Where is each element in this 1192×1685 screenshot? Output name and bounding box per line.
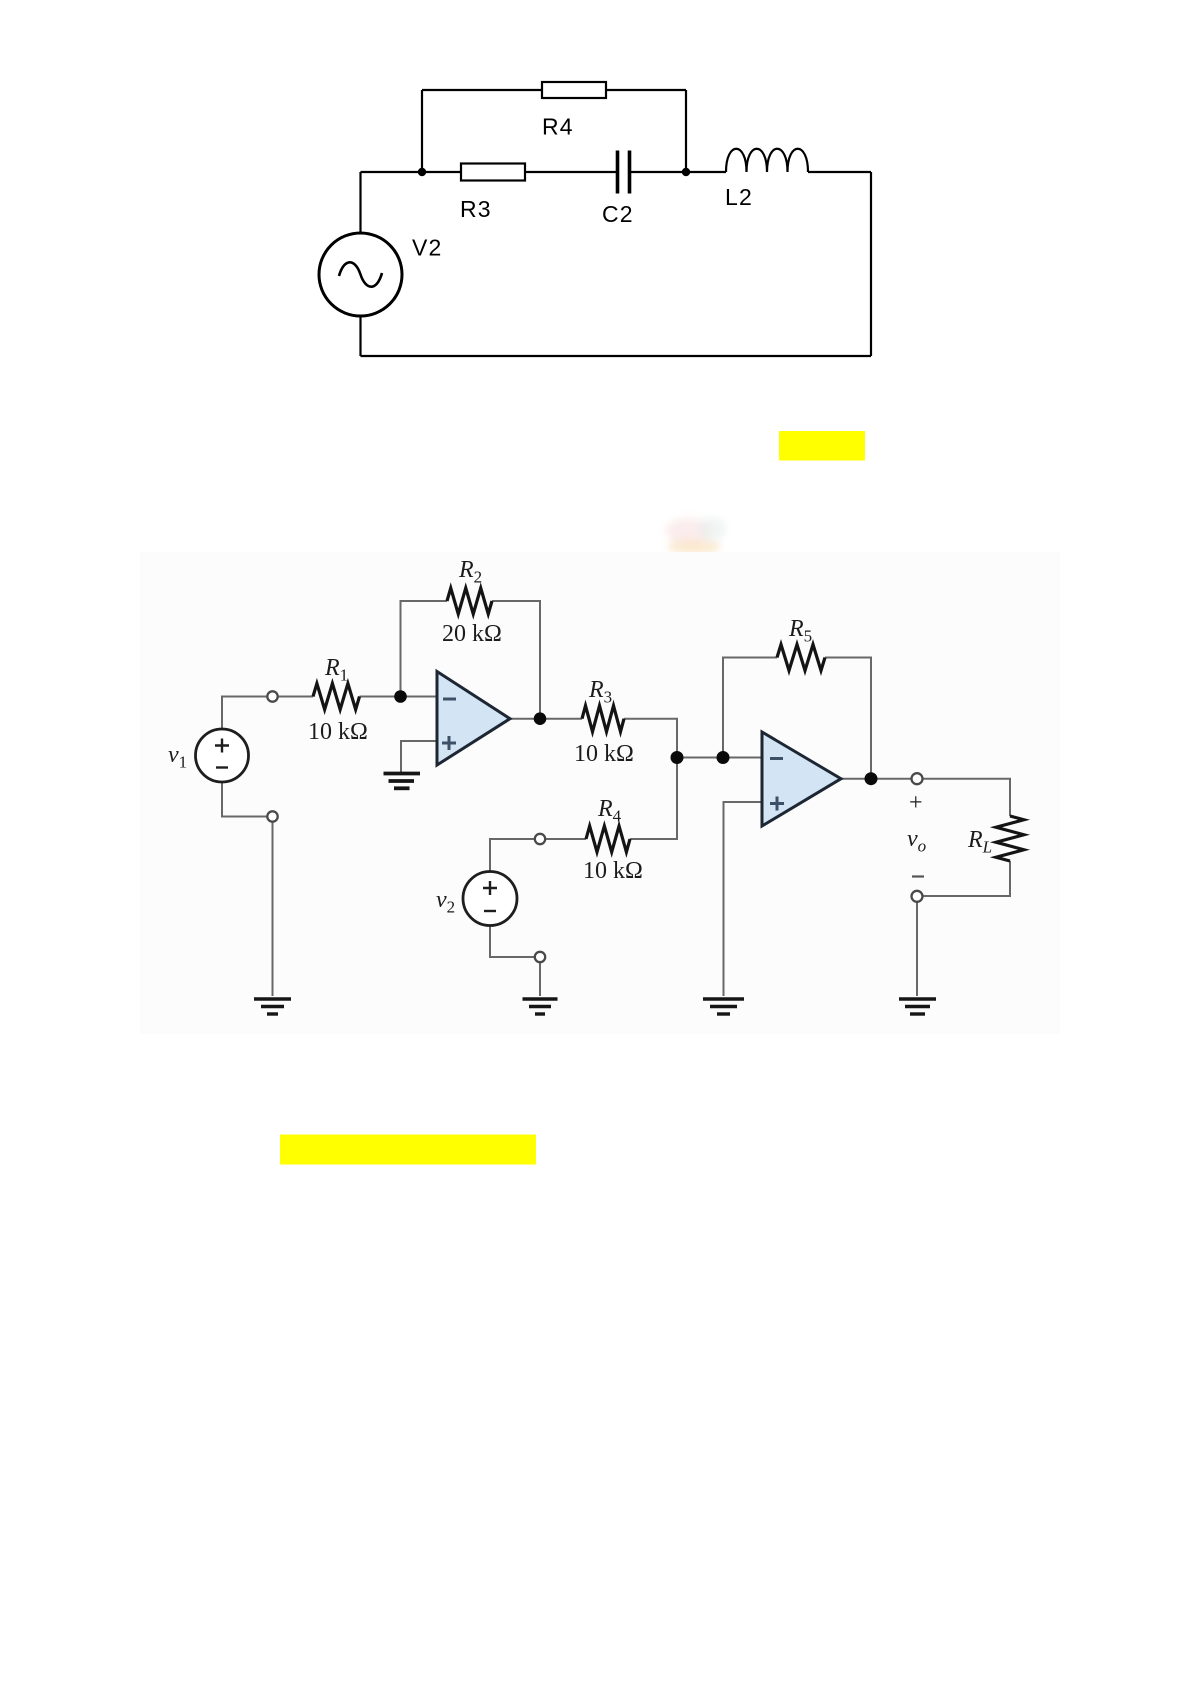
svg-text:10 kΩ: 10 kΩ bbox=[574, 741, 634, 767]
svg-text:C2: C2 bbox=[602, 201, 634, 227]
svg-text:V2: V2 bbox=[412, 235, 443, 261]
svg-text:+: + bbox=[909, 790, 923, 816]
svg-text:R4: R4 bbox=[542, 114, 574, 140]
svg-text:10 kΩ: 10 kΩ bbox=[583, 858, 643, 884]
svg-text:20 kΩ: 20 kΩ bbox=[442, 621, 502, 647]
svg-text:R3: R3 bbox=[460, 196, 492, 222]
svg-text:10 kΩ: 10 kΩ bbox=[308, 719, 368, 745]
svg-text:L2: L2 bbox=[725, 184, 753, 210]
